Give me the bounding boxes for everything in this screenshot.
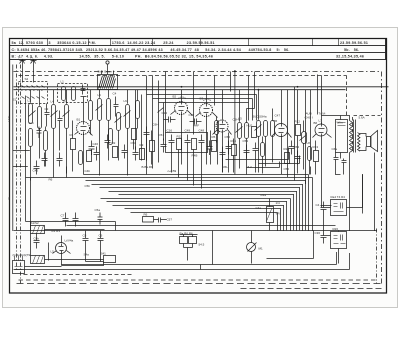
coil L3b (29, 129, 33, 147)
chassis dashed bottom line mid (19, 279, 379, 281)
chassis dashed top line 2 (19, 75, 347, 77)
svg-text:C6H: C6H (153, 123, 159, 127)
svg-text:R1: R1 (70, 133, 74, 137)
capacitor C9 (57, 153, 63, 167)
coupling capacitor C15 (190, 119, 202, 125)
svg-text:C5a: C5a (95, 208, 101, 212)
bus wire row 1 (31, 178, 313, 232)
svg-text:C51: C51 (159, 133, 165, 137)
coil L3a (29, 104, 33, 124)
valve B1 leads (75, 114, 93, 175)
tone unit lower parts (334, 235, 346, 244)
svg-text:C50: C50 (131, 141, 137, 145)
tone unit box upper (331, 200, 347, 216)
capacitor C49 (185, 135, 191, 149)
valve B5 electrodes (279, 124, 285, 138)
capacitor C47a (105, 135, 111, 149)
capacitor C55 (98, 213, 103, 225)
svg-text:C4a: C4a (256, 206, 262, 210)
svg-text:R16: R16 (231, 139, 237, 143)
svg-text:C56: C56 (284, 167, 290, 171)
svg-text:R1 R3: R1 R3 (52, 229, 61, 233)
title table row line 1 (10, 45, 386, 47)
bus wire row 11 (125, 209, 282, 231)
output transformer T2 frame (336, 120, 348, 153)
capacitor C51 (161, 139, 167, 153)
valve B5 leads (272, 90, 292, 174)
dial lamp M1 circle (247, 243, 256, 252)
coil L13 (136, 101, 140, 119)
svg-text:c«C59: c«C59 (168, 169, 177, 173)
resistor R10 (285, 153, 290, 164)
wire stage1 vertical (31, 90, 40, 181)
svg-text:5a 12. 5793 630 3 3536: 5a 12. 5793 630 3 353644 0-15-12 P.M. 17… (12, 41, 215, 45)
grid top caps B2 B3 (179, 97, 211, 101)
rectifier B7 leads (53, 236, 71, 266)
capacitor C17 (207, 141, 213, 156)
svg-text:C4b: C4b (85, 169, 91, 173)
valve B4 electrodes (220, 121, 226, 133)
svg-text:R6: R6 (144, 213, 148, 217)
svg-text:L4: L4 (51, 100, 55, 104)
bus wire row 9 (107, 202, 288, 231)
transformer label text (338, 123, 346, 126)
svg-text:R26: R26 (333, 227, 339, 231)
capacitor C19 (37, 127, 42, 139)
title table column ticks (23, 39, 339, 46)
transformer T2 secondary winding (358, 133, 361, 152)
coil L5 IF (238, 123, 242, 139)
capacitor C7 (63, 213, 69, 227)
capacitor C4b (34, 234, 40, 249)
chassis dashed bottom inner line (241, 288, 383, 290)
svg-text:L3: L3 (28, 99, 32, 103)
grid cap lead B1 (81, 97, 87, 114)
VR hatch (267, 209, 272, 221)
wire left second vertical (26, 104, 31, 222)
svg-text:C4: C4 (316, 203, 320, 207)
switch S1 contact row (22, 86, 45, 88)
choke S4b hatched (31, 256, 45, 264)
svg-text:C15: C15 (189, 113, 195, 117)
IF can block T1 (98, 75, 118, 90)
svg-text:L5: L5 (51, 250, 55, 254)
svg-text:L8: L8 (307, 141, 311, 145)
choke S4b hatch (33, 256, 44, 264)
bus wire row 14 HT return (14, 230, 378, 232)
wire det extra (256, 137, 263, 174)
svg-text:5b. 56.: 5b. 56. (344, 48, 359, 52)
wire output top (317, 75, 319, 115)
wire aerial down-lead 1 (22, 71, 24, 83)
speaker dashed enclosure (353, 116, 381, 151)
bus wire row 10 (113, 206, 285, 232)
switch S1 lower contact row (22, 97, 45, 99)
padder C2 (45, 104, 50, 127)
chassis dashed bottom long line (17, 283, 382, 285)
wire stage2 links (54, 90, 67, 174)
choke S4a hatched (31, 226, 45, 234)
svg-text:Ra4 T4 R4: Ra4 T4 R4 (331, 195, 346, 199)
resistor R13 (314, 151, 319, 162)
svg-text:C47: C47 (275, 114, 281, 118)
capacitor C4t (321, 202, 327, 216)
svg-text:1/4: 1/4 (276, 201, 281, 205)
wire tone lower leads (327, 231, 339, 264)
resistor R4b (192, 139, 197, 150)
svg-text:B2: B2 (173, 95, 177, 99)
capacitor C10 (42, 153, 48, 167)
bus corner bottom right 2 (62, 252, 337, 265)
transformer T2 core (354, 120, 356, 153)
capacitor C1 trimmer (81, 85, 86, 95)
svg-text:R6: R6 (49, 178, 53, 182)
svg-text:3in1 Couer: 3in1 Couer (98, 70, 113, 74)
coil L1 (62, 87, 66, 101)
oscillator section verticals (136, 90, 229, 173)
coil L5b (107, 99, 111, 121)
valve B4 envelope (216, 120, 228, 132)
title table frame (10, 39, 386, 60)
svg-text:L5: L5 (98, 93, 102, 97)
valve B3 envelope (200, 104, 213, 117)
capacitor C18 (89, 141, 95, 156)
svg-text:8.2: 8.2 (248, 165, 253, 169)
svg-text:R6L: R6L (223, 165, 229, 169)
svg-text:C53: C53 (243, 139, 249, 143)
IF can T1 leads (102, 65, 114, 75)
bus corner bottom right 3 (14, 253, 350, 270)
coil L11 (261, 143, 265, 157)
svg-text:S1: S1 (13, 98, 17, 102)
coil L4d (79, 151, 83, 165)
svg-text:HLF: HLF (247, 124, 253, 128)
wire VR leads (269, 199, 271, 231)
wire L13 leads (137, 90, 139, 129)
svg-text:L1: L1 (61, 80, 65, 84)
capacitor C57 (154, 218, 167, 223)
rectifier valve B7 envelope (56, 243, 67, 254)
aerial A2 / earth lead (31, 60, 37, 71)
coil L12 (215, 121, 219, 135)
svg-text:R2: R2 (112, 141, 116, 145)
capacitor C11 (144, 127, 150, 141)
transformer T2 leads (322, 116, 375, 232)
wire tone upper leads (324, 175, 363, 231)
svg-text:C36: C36 (315, 231, 321, 235)
svg-text:R9: R9 (140, 143, 144, 147)
capacitor C6 (98, 231, 104, 248)
svg-text:S1/S2: S1/S2 (31, 221, 40, 225)
resistor R2 (113, 147, 118, 158)
svg-text:C7: C7 (61, 214, 65, 218)
dashed vertical to speaker box (346, 76, 348, 116)
valve B2 electrodes (179, 102, 185, 116)
wire junction drop mid (212, 231, 214, 265)
coil L9 (89, 101, 93, 121)
resistor S41 box (104, 256, 116, 263)
chassis dash-dot right line (381, 72, 383, 284)
svg-text:C4: C4 (113, 92, 117, 96)
coil L5 smoothing label wire (49, 243, 62, 267)
resistor R9 (140, 149, 145, 160)
bus wire row 3 (86, 181, 307, 231)
svg-text:B5: B5 (274, 119, 278, 123)
wave-change switch S1 dashed box (19, 82, 48, 104)
choke S4a hatch (33, 226, 44, 234)
tuning gang frame wires (147, 95, 257, 175)
potentiometer VR box (267, 207, 274, 223)
resistor R6 (87, 151, 92, 162)
junction dot detector (234, 70, 236, 72)
valve B6 envelope (315, 124, 327, 136)
rectifier valve B7 anodes (59, 244, 64, 254)
trimmer C4 (114, 97, 119, 117)
svg-text:B: 17 4.3. 6. 4.93.: B: 17 4.3. 6. 4.93. 14.55. 35. 5. 5-6.10… (12, 55, 214, 59)
wire mid extra verticals (134, 131, 152, 165)
coil L8 (308, 147, 312, 161)
bus wire row 6 (109, 192, 298, 232)
valve B3 electrodes (204, 104, 210, 118)
capacitor C46 (94, 147, 100, 161)
svg-text:C2: C2 (45, 107, 49, 111)
resistor R14 (132, 129, 137, 140)
fuse boxes F1 F2 (180, 237, 188, 244)
wire aerial down-lead 2 (33, 71, 35, 83)
svg-text:CHO I: CHO I (305, 116, 314, 120)
coil L6a (117, 113, 121, 131)
svg-text:23.59.59.56.51: 23.59.59.56.51 (340, 41, 368, 45)
capacitor C16 (169, 135, 175, 149)
svg-text:L4: L4 (64, 99, 68, 103)
wire L12 leads (216, 117, 218, 143)
small junction dots (84, 87, 298, 90)
detector diode wire (234, 71, 236, 174)
valve B6 leads (313, 76, 332, 208)
bus wire row 5 (100, 188, 301, 231)
mains plug pins (15, 256, 23, 270)
svg-text:Lt/V4a: Lt/V4a (65, 239, 74, 243)
valve B2 envelope (175, 102, 188, 115)
capacitor C54 (295, 151, 301, 165)
svg-text:C49: C49 (185, 129, 191, 133)
HT bus wire upper (14, 86, 389, 88)
coil SuCt c (271, 121, 275, 137)
svg-text:(C-4x-C4)(79: (C-4x-C4)(79 (13, 253, 31, 257)
bus wire row 7 (119, 195, 295, 231)
wire transformer bottom links (336, 165, 344, 175)
svg-text:R10: R10 (284, 147, 290, 151)
svg-text:R13: R13 (313, 145, 319, 149)
wire power top (26, 222, 116, 231)
wire L9 leads (90, 90, 92, 135)
wire L4e leads (45, 127, 47, 167)
capacitor C36 (321, 231, 327, 244)
valve B4 leads (213, 90, 232, 173)
dial lamp M1 arrow (248, 243, 257, 252)
svg-text:Ra R6 R6: Ra R6 R6 (180, 232, 194, 236)
coil L6b (126, 105, 130, 129)
coil SuCt b (264, 121, 268, 137)
tone unit box lower (331, 232, 347, 249)
wire SuCt leads (259, 90, 273, 173)
wire tone box1 feed (321, 174, 363, 214)
svg-text:4a: 4a (7, 196, 11, 200)
svg-text:Tu/Vi: Tu/Vi (319, 112, 326, 116)
grid cap connector circle (106, 61, 109, 64)
svg-text:B1: B1 (77, 118, 81, 122)
wire right stage drops (310, 141, 316, 175)
fuse cluster top wire (180, 235, 198, 261)
resistor R1 (71, 139, 76, 150)
svg-text:R2a: R2a (261, 193, 267, 197)
loudspeaker driver (367, 137, 372, 147)
coil SuCt a (257, 121, 261, 137)
svg-text:4HF: 4HF (194, 124, 200, 128)
svg-text:S4a: S4a (84, 253, 90, 257)
wire IF stage verticals (172, 149, 202, 189)
capacitor C12 (220, 147, 226, 161)
coil L4e (44, 131, 48, 151)
HT bus wire lower (14, 89, 346, 91)
svg-text:C4b: C4b (34, 237, 40, 241)
svg-text:R11: R11 (177, 135, 183, 139)
bus wire row 2 (84, 175, 309, 232)
wire M1 leads (251, 231, 253, 264)
svg-text:C16: C16 (167, 129, 173, 133)
wire AVC horizontal 1 (226, 148, 289, 160)
title table row line 2 (10, 51, 386, 53)
valve B2 leads (171, 90, 193, 165)
wire left connectors (13, 96, 30, 167)
tone unit upper parts (334, 203, 344, 212)
wire power bottom links (25, 230, 105, 267)
svg-text:C6: C6 (99, 234, 103, 238)
loudspeaker leads (360, 134, 367, 151)
resistor R11 (177, 139, 182, 150)
resistor R16 (232, 145, 237, 156)
resistor R5 (212, 141, 217, 152)
capacitor C53 (244, 145, 250, 159)
svg-text:C5b: C5b (85, 184, 91, 188)
switch S1 contact dots (22, 90, 44, 92)
bus wire row 8 (101, 199, 291, 232)
svg-text:L1/V: L1/V (7, 116, 11, 122)
valve B1 envelope (77, 122, 90, 135)
svg-text:C8: C8 (83, 234, 87, 238)
svg-text:C57: C57 (167, 218, 173, 222)
coil L6 (302, 132, 307, 144)
svg-text:B3: B3 (200, 97, 204, 101)
chassis dash-dot right inner line (376, 229, 378, 284)
coil box L1 L2 dashed (58, 84, 88, 103)
resistor R8 (252, 127, 257, 138)
svg-text:S41: S41 (101, 252, 107, 256)
valve B3 leads (196, 90, 218, 165)
valve B1 electrodes (81, 122, 87, 136)
svg-text:5UCt50Ha: 5UCt50Ha (253, 115, 267, 119)
coil L4a (38, 107, 42, 129)
svg-text:C46: C46 (93, 142, 99, 146)
wire bottom left drop (31, 167, 67, 231)
svg-text:C45: C45 (33, 169, 39, 173)
switch arrow marks (29, 105, 306, 141)
svg-text:C6a: C6a (332, 147, 338, 151)
capacitor C48b (289, 141, 295, 155)
capacitor C45 (34, 161, 40, 175)
coil L4c (65, 105, 69, 129)
capacitor C5 (122, 145, 128, 159)
capacitor C50 (133, 147, 139, 161)
svg-text:C14: C14 (162, 111, 168, 115)
svg-text:A: A (31, 56, 33, 60)
resistor R15 (150, 141, 155, 152)
cluster box AVC (166, 133, 208, 153)
svg-text:C: 5.4654 853a 46. 755841-5721: C: 5.4654 853a 46. 755841-57210 345. 252… (12, 48, 290, 52)
border frame of schematic (10, 39, 387, 294)
chassis dash-dot top line 1 (14, 71, 382, 73)
coil L4b (52, 105, 56, 129)
transformer T2 primary winding (350, 121, 353, 153)
wire chassis stubs top (147, 72, 306, 185)
svg-text:5.6A: 5.6A (359, 116, 365, 120)
coil L10 (109, 129, 113, 145)
capacitor C48 (199, 135, 205, 149)
svg-text:C52: C52 (225, 135, 231, 139)
valve B6 electrodes (319, 123, 325, 137)
svg-text:R4B: R4B (192, 154, 198, 158)
svg-text:W/m: W/m (337, 121, 344, 125)
bus wire row 13 long (67, 225, 336, 227)
valve B5 envelope (275, 124, 288, 137)
svg-text:L6: L6 (124, 99, 128, 103)
capacitor C6a below transformer (334, 153, 339, 165)
chassis dash-dot left line 1 (16, 65, 18, 271)
mains input cluster (13, 261, 25, 274)
svg-text:B.Ba.Rb: B.Ba.Rb (142, 165, 154, 169)
svg-text:C48: C48 (199, 129, 205, 133)
coupling capacitor C14 (164, 117, 176, 123)
svg-text:R5: R5 (212, 135, 216, 139)
wire stage3 verticals (100, 90, 128, 176)
wire AVC horizontal 3 (247, 162, 280, 168)
capacitor C8 (83, 231, 89, 248)
wire R1 leads (72, 121, 74, 172)
aerial A1 (20, 60, 26, 71)
bus wire row 4 (92, 185, 304, 232)
wire left main vertical (12, 65, 14, 232)
svg-text:C54: C54 (294, 145, 300, 149)
wire L5 links (240, 90, 255, 175)
wire output stage links (298, 90, 311, 175)
svg-text:T: T (18, 56, 20, 60)
coil L5a (98, 99, 102, 121)
coil L2 (72, 87, 76, 101)
chassis dashed bottom short line left (24, 274, 134, 276)
coil L5 IF second (245, 123, 249, 139)
chassis dash-dot left line 2 (20, 65, 22, 284)
resistor R12 (296, 125, 301, 136)
bus corner bottom right 1 (267, 231, 314, 259)
svg-text:5a4: 5a4 (29, 121, 34, 125)
wire AVC horizontal 2 (259, 156, 300, 164)
capacitor C6b below transformer (342, 159, 347, 167)
svg-text:M1: M1 (259, 247, 263, 251)
capacitor C52 (226, 141, 232, 155)
svg-text:R12: R12 (295, 120, 301, 124)
capacitor C13 (253, 143, 259, 157)
svg-text:L5: L5 (239, 117, 243, 121)
